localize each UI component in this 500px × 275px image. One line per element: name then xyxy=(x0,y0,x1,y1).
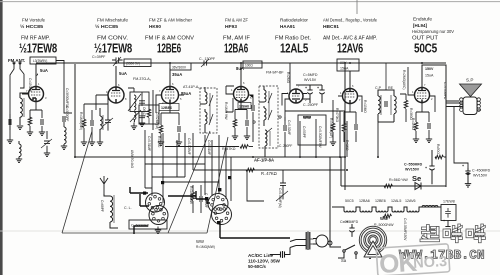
svg-text:C₋550MFD: C₋550MFD xyxy=(404,163,423,167)
ground xyxy=(426,139,432,142)
svg-text:FM ZF & AM Mischer: FM ZF & AM Mischer xyxy=(149,18,192,24)
svg-text:50C5: 50C5 xyxy=(414,41,437,56)
ground xyxy=(131,126,137,129)
coil L1 antenna xyxy=(20,93,28,125)
header column 2 labels xyxy=(94,18,132,56)
svg-text:12BA6: 12BA6 xyxy=(239,105,249,109)
svg-text:AM Demod., Regelsp., Vorstufe: AM Demod., Regelsp., Vorstufe xyxy=(323,18,377,24)
wire AVC drop left xyxy=(75,156,378,158)
plus marks for electrolytics xyxy=(305,86,464,224)
svg-text:C=0.002MF5W: C=0.002MF5W xyxy=(318,126,322,148)
svg-text:C=68PF: C=68PF xyxy=(100,200,104,212)
svg-text:HBC91: HBC91 xyxy=(323,24,339,30)
tube U7 50C5 xyxy=(415,87,430,104)
wire AVC feed vertical x75 xyxy=(74,64,76,157)
wires into S2 xyxy=(219,135,231,201)
svg-text:AF-1/P-8A: AF-1/P-8A xyxy=(254,158,274,163)
svg-text:C₋250PF: C₋250PF xyxy=(279,144,292,148)
resistor R5 xyxy=(159,125,163,134)
ground xyxy=(158,142,164,145)
ground xyxy=(367,255,373,258)
svg-text:(3300 9V): (3300 9V) xyxy=(126,62,140,66)
svg-text:FM & AM ZF: FM & AM ZF xyxy=(225,18,248,24)
box above T6 xyxy=(337,59,359,71)
box above T3 xyxy=(170,63,191,70)
svg-text:R=1MΩ ½W: R=1MΩ ½W xyxy=(224,102,228,120)
ground xyxy=(232,136,238,139)
cap middle xyxy=(385,101,387,107)
header column 4 labels xyxy=(223,18,250,56)
svg-text:Endstufe: Endstufe xyxy=(413,17,432,23)
svg-text:FM Vorstufe: FM Vorstufe xyxy=(22,18,45,24)
svg-text:100Ω: 100Ω xyxy=(245,64,253,68)
wire bus vertical x193 xyxy=(192,133,194,170)
svg-text:17EW8: 17EW8 xyxy=(443,200,455,204)
ground xyxy=(244,136,250,139)
svg-text:+: + xyxy=(346,220,348,224)
wire grid T2 xyxy=(84,95,108,112)
svg-text:C. L.: C. L. xyxy=(124,206,132,210)
tube U2 half 17EW8 FM conv xyxy=(108,87,124,103)
svg-text:12BE6: 12BE6 xyxy=(161,106,172,110)
svg-text:R=150Ω: R=150Ω xyxy=(411,118,415,130)
svg-text:FM Mischstufe: FM Mischstufe xyxy=(97,18,128,24)
ground xyxy=(176,142,182,145)
char 2 (bi) xyxy=(443,229,451,238)
svg-text:C=0.02MF: C=0.02MF xyxy=(287,120,291,135)
long vertical x345 xyxy=(344,63,346,190)
svg-text:C=5MFD: C=5MFD xyxy=(303,73,318,77)
resistor R AVC xyxy=(331,123,335,132)
svg-text:12AV6: 12AV6 xyxy=(405,199,416,203)
ground xyxy=(27,132,33,135)
svg-text:WV150V: WV150V xyxy=(473,174,488,178)
IFT D3 dashed box xyxy=(259,86,278,148)
ground xyxy=(17,126,23,129)
heater chain coils xyxy=(332,207,440,212)
capacitor C4 cathode xyxy=(41,119,43,125)
svg-text:R=1MΩ(MW): R=1MΩ(MW) xyxy=(196,245,215,249)
wire input xyxy=(9,114,11,140)
wire plate T1 to box xyxy=(35,64,37,86)
svg-text:FM-37Ω-A₁: FM-37Ω-A₁ xyxy=(133,77,152,81)
boxed tube ref T3 xyxy=(159,104,179,111)
resistor R7 xyxy=(233,119,237,128)
svg-text:5uA: 5uA xyxy=(119,71,127,76)
variable capacitor C1a gang xyxy=(103,112,113,131)
header column 1 labels xyxy=(19,18,57,56)
box C600 xyxy=(129,220,167,229)
svg-text:+: + xyxy=(443,219,445,223)
resistor right xyxy=(404,100,408,109)
svg-text:FM ANT.: FM ANT. xyxy=(8,58,25,63)
coil below box xyxy=(130,110,145,126)
grid T6 xyxy=(338,96,362,112)
junction squares S1 area xyxy=(143,176,231,224)
resistor R3 xyxy=(82,119,86,128)
svg-text:C=0.01MF: C=0.01MF xyxy=(147,136,151,151)
header column 6 labels xyxy=(323,18,377,56)
svg-text:+: + xyxy=(425,166,427,170)
header column 7 labels xyxy=(412,17,454,56)
svg-text:150V: 150V xyxy=(425,67,434,71)
svg-text:12BA6: 12BA6 xyxy=(224,41,248,56)
output transformer T-OP xyxy=(446,97,481,168)
coils inside D2 xyxy=(200,87,213,133)
capacitor C6 xyxy=(91,120,93,126)
watermark logo rings xyxy=(358,225,388,255)
socket S2 xyxy=(208,194,232,225)
oscillator box xyxy=(139,105,159,124)
svg-text:½ HCC85: ½ HCC85 xyxy=(20,23,43,30)
caps beside D3 xyxy=(252,105,254,111)
svg-text:12AV6: 12AV6 xyxy=(337,41,363,56)
svg-text:NO.3: NO.3 xyxy=(413,254,448,272)
ecap C11 xyxy=(296,85,325,103)
box above T7 xyxy=(422,65,459,187)
svg-text:R=56Ω ½W: R=56Ω ½W xyxy=(389,178,408,182)
svg-text:50-60C/s: 50-60C/s xyxy=(248,264,266,270)
svg-text:Rx47KΩ: Rx47KΩ xyxy=(222,147,236,151)
page edge artifacts xyxy=(0,0,3,275)
coils inside D3 xyxy=(259,86,272,157)
svg-text:12BE6: 12BE6 xyxy=(375,199,386,203)
wire plate T4 xyxy=(240,63,242,86)
ground xyxy=(155,230,161,233)
RC network above plug xyxy=(247,170,288,201)
coil L2b xyxy=(64,127,66,146)
resistor R2 cathode xyxy=(28,117,32,126)
header column 5 labels xyxy=(275,18,311,56)
resistor heater xyxy=(384,184,393,188)
svg-text:R=2MΩ(AVC): R=2MΩ(AVC) xyxy=(402,70,406,89)
ground xyxy=(39,132,45,135)
ground xyxy=(7,140,13,143)
stamp OK NO.3 xyxy=(376,244,450,275)
S2 wires xyxy=(168,191,290,238)
svg-text:36V/300V: 36V/300V xyxy=(172,66,187,70)
svg-text:C.P: C.P xyxy=(375,86,382,90)
AF coupling coils cluster xyxy=(378,63,396,122)
ground xyxy=(465,184,471,187)
svg-text:C=39PF: C=39PF xyxy=(92,55,106,59)
vertical line x153 xyxy=(152,90,154,130)
svg-text:C=0.05MF(M): C=0.05MF(M) xyxy=(278,188,282,208)
svg-text:½17EW8: ½17EW8 xyxy=(19,41,57,56)
svg-text:FM-9/P-BF: FM-9/P-BF xyxy=(266,71,284,75)
svg-text:L3(3W9V): L3(3W9V) xyxy=(33,59,47,63)
svg-text:R=10MΩ: R=10MΩ xyxy=(363,100,367,113)
wire plate T2 xyxy=(115,66,117,87)
svg-text:AT-41P-A₁: AT-41P-A₁ xyxy=(183,85,200,89)
svg-text:C=50PF: C=50PF xyxy=(302,126,306,138)
ground xyxy=(413,139,419,142)
wires under T6 xyxy=(344,104,356,124)
tube U4 12BA6 xyxy=(234,86,249,103)
svg-text:½ HCC85: ½ HCC85 xyxy=(95,23,118,30)
svg-text:C=02MF(M): C=02MF(M) xyxy=(155,112,159,129)
svg-text:C₋250PF: C₋250PF xyxy=(303,103,319,107)
AM loop antenna xyxy=(100,176,108,194)
IFT D2 dashed box xyxy=(200,88,217,133)
svg-text:½17EW8: ½17EW8 xyxy=(94,41,132,56)
svg-text:WW: WW xyxy=(303,115,311,120)
svg-text:Sa: Sa xyxy=(341,258,347,263)
svg-text:R₋47KΩ: R₋47KΩ xyxy=(261,171,277,176)
wire to switch xyxy=(330,157,341,247)
tube U5 12AL5 xyxy=(289,89,303,104)
svg-text:AMV 50.4kΩ: AMV 50.4kΩ xyxy=(130,150,134,169)
svg-text:Rx50Ω: Rx50Ω xyxy=(436,144,440,154)
svg-text:R=1000: R=1000 xyxy=(157,136,161,147)
svg-text:WV15V: WV15V xyxy=(304,78,317,82)
watermark chinese text (drawn strokes, hollow white with gray outline) xyxy=(420,224,486,243)
svg-text:OS-C5: OS-C5 xyxy=(142,107,146,117)
wire T4 cathode xyxy=(235,102,247,120)
trimmer top xyxy=(112,57,123,66)
mid vertical wires xyxy=(145,130,219,203)
switch Sa xyxy=(338,245,357,259)
FM antenna input xyxy=(10,62,24,130)
header column 3 labels xyxy=(145,18,194,56)
svg-text:8uA: 8uA xyxy=(236,66,244,71)
ground xyxy=(44,153,50,156)
svg-text:R=1KΩ: R=1KΩ xyxy=(345,140,349,151)
svg-text:HK90: HK90 xyxy=(149,24,161,30)
svg-text:15uA: 15uA xyxy=(340,67,349,71)
cord connector xyxy=(270,248,290,259)
svg-text:Ratiodetektor: Ratiodetektor xyxy=(280,18,308,24)
svg-text:C=0.05MF150V: C=0.05MF150V xyxy=(403,218,407,241)
grid T4 xyxy=(226,86,234,112)
wire plate T3 xyxy=(169,68,171,86)
power plug xyxy=(290,232,328,251)
ground xyxy=(139,123,145,126)
char 3 (bi) xyxy=(466,229,474,238)
svg-text:C=150MF: C=150MF xyxy=(28,78,32,92)
svg-text:12AL5: 12AL5 xyxy=(391,199,401,203)
coil L2 xyxy=(19,141,21,159)
svg-text:+: + xyxy=(317,86,319,90)
wire T1 grid link xyxy=(24,93,28,95)
capacitor C1 input xyxy=(9,119,11,125)
trapezoid gang linkage xyxy=(62,131,228,233)
wire B+ top bus xyxy=(36,62,446,64)
ground xyxy=(81,142,87,145)
tube U6 12AV6 xyxy=(343,88,358,104)
svg-text:RE: RE xyxy=(388,86,394,90)
svg-text:Se: Se xyxy=(412,174,421,183)
box osc xyxy=(124,59,151,67)
svg-text:C=0.005MF: C=0.005MF xyxy=(187,138,191,155)
svg-text:C=3300PF: C=3300PF xyxy=(65,106,69,121)
svg-text:Cx655MFD: Cx655MFD xyxy=(340,220,359,224)
capacitor C5 xyxy=(63,116,65,122)
socket S1 xyxy=(146,193,169,225)
svg-text:15uA: 15uA xyxy=(425,74,434,78)
box L3 xyxy=(30,57,56,64)
resistor feed xyxy=(435,155,444,159)
ground xyxy=(330,142,336,145)
svg-text:R=1MΩ(3W): R=1MΩ(3W) xyxy=(79,112,83,130)
char 1 (qi) xyxy=(422,227,435,230)
tube U3 12BE6 xyxy=(162,86,179,104)
tube pin numbers xyxy=(26,81,433,105)
wire AF bus y170 xyxy=(193,169,345,171)
T5 diode wiring xyxy=(282,63,310,121)
under T7 xyxy=(416,103,429,122)
ground xyxy=(61,146,67,149)
wire right rail xyxy=(422,65,446,186)
svg-text:R=470KΩ: R=470KΩ xyxy=(335,108,339,123)
boxed tube ref T4 xyxy=(238,103,251,109)
svg-text:R=2MΩ: R=2MΩ xyxy=(286,72,290,84)
wire y190 right xyxy=(341,157,446,186)
grid T7 xyxy=(408,67,435,112)
wire y111 xyxy=(285,110,345,112)
capacitor C8 xyxy=(178,126,180,132)
svg-text:+: + xyxy=(305,86,307,90)
svg-text:AC/DC Line: AC/DC Line xyxy=(248,253,273,259)
wire AVC bus y157 xyxy=(75,156,345,158)
svg-text:12BA6: 12BA6 xyxy=(359,199,370,203)
volume box xyxy=(298,115,326,145)
capacitor C10 xyxy=(246,120,248,126)
ground xyxy=(89,142,95,145)
svg-text:Heizspannung nur 30V: Heizspannung nur 30V xyxy=(412,29,454,34)
svg-text:WW: WW xyxy=(196,239,204,244)
loop coil xyxy=(104,194,118,228)
wire screen bypass vertical xyxy=(56,61,72,114)
components between sockets xyxy=(191,192,195,201)
FM IFT LC box xyxy=(128,88,149,112)
ground xyxy=(16,159,22,162)
svg-text:50C5: 50C5 xyxy=(345,199,354,203)
S1 entry wires thick xyxy=(130,187,149,234)
svg-text:HF93: HF93 xyxy=(225,24,237,30)
wires down from volume xyxy=(300,111,347,157)
svg-text:WV150V: WV150V xyxy=(405,168,420,172)
tube U1 grid/cathode parts xyxy=(22,94,42,118)
grid T3 parts xyxy=(156,95,184,125)
ground xyxy=(97,142,103,145)
svg-text:12AL5: 12AL5 xyxy=(280,41,308,56)
svg-text:+: + xyxy=(462,164,464,168)
svg-text:HAA91: HAA91 xyxy=(280,24,295,30)
tube U1 half 17EW8 FM RF amp xyxy=(29,86,44,102)
svg-text:110-120V, 35W: 110-120V, 35W xyxy=(248,259,280,265)
svg-text:5uA: 5uA xyxy=(40,68,48,73)
caps under D3 xyxy=(284,125,286,131)
svg-text:R=100ΩWW: R=100ΩWW xyxy=(189,186,193,204)
svg-text:12BE6: 12BE6 xyxy=(157,41,181,56)
svg-text:35uA: 35uA xyxy=(172,72,182,77)
coil L4 xyxy=(100,108,103,142)
box 100ohm xyxy=(243,61,262,68)
svg-text:C=0.01MF: C=0.01MF xyxy=(207,140,211,155)
svg-text:S.P: S.P xyxy=(466,78,473,83)
trimmer caps left xyxy=(41,131,52,153)
svg-text:C₋450MFD: C₋450MFD xyxy=(472,169,491,173)
